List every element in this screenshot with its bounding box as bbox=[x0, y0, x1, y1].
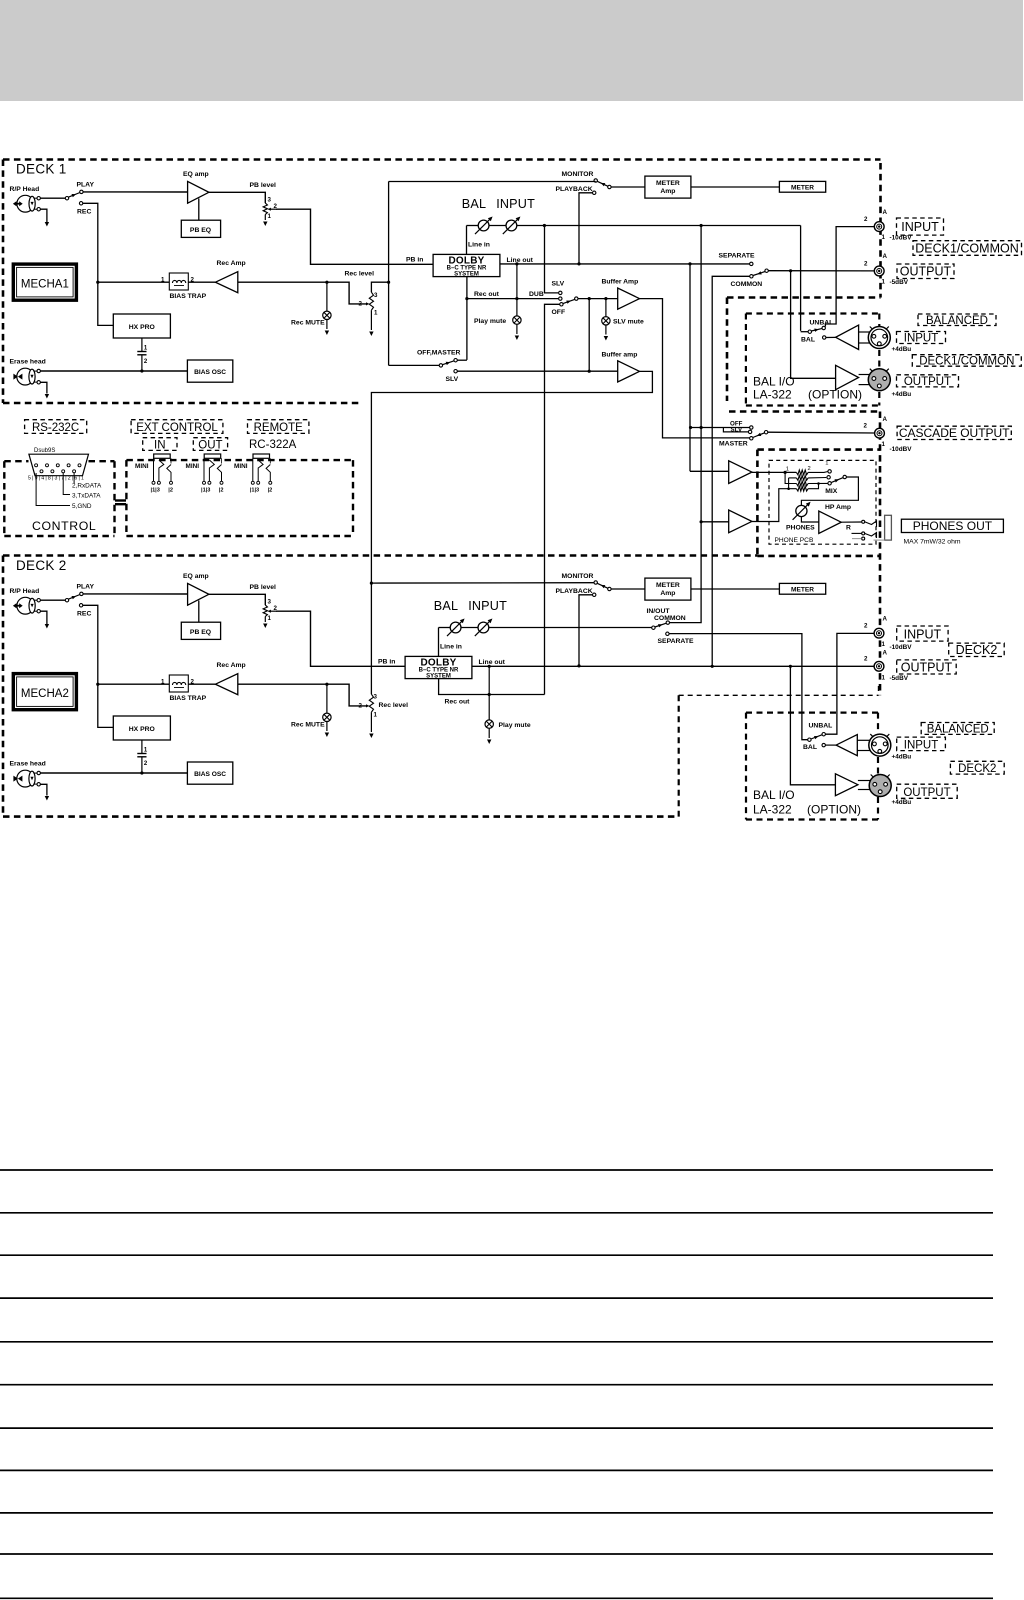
svg-text:Rec out: Rec out bbox=[474, 291, 500, 298]
op-amp EQ amp deck2 bbox=[188, 583, 209, 605]
inductor BIAS TRAP deck2 bbox=[169, 675, 188, 692]
svg-text:(OPTION): (OPTION) bbox=[808, 388, 862, 402]
wire HP amp to phone jack tip bbox=[841, 521, 861, 523]
svg-text:|2: |2 bbox=[268, 488, 273, 494]
svg-text:Rec out: Rec out bbox=[445, 698, 471, 705]
svg-text:A: A bbox=[883, 616, 888, 623]
header gray band bbox=[0, 0, 1023, 101]
svg-text:CASCADE OUTPUT: CASCADE OUTPUT bbox=[899, 426, 1010, 440]
svg-text:Line in: Line in bbox=[468, 242, 490, 249]
svg-text:PHONE PCB: PHONE PCB bbox=[775, 537, 814, 544]
block MECHA2 bbox=[13, 674, 76, 710]
erase head terminals deck2 bbox=[37, 771, 40, 774]
dashed box PHONE PCB inner bbox=[769, 460, 876, 544]
connector D-sub 9 pin bbox=[29, 454, 89, 476]
svg-text:1: 1 bbox=[825, 461, 828, 467]
dashed label box EXT CONTROL bbox=[131, 420, 223, 434]
wire erase head to BIAS OSC deck2 bbox=[40, 772, 187, 774]
svg-text:METER: METER bbox=[791, 586, 814, 593]
svg-text:PLAY: PLAY bbox=[77, 182, 95, 189]
svg-text:METER: METER bbox=[656, 582, 680, 589]
connector mini jack body bbox=[253, 454, 270, 458]
svg-text:Line in: Line in bbox=[440, 644, 462, 651]
svg-text:MIX: MIX bbox=[825, 488, 838, 495]
svg-text:LA-322: LA-322 bbox=[753, 388, 792, 402]
wire line in vertical deck1 bbox=[466, 226, 468, 255]
wire buffer amp 2 output cascade to deck2 deck1 bbox=[371, 371, 652, 694]
svg-text:3: 3 bbox=[374, 694, 378, 701]
dashed label box RS-232C bbox=[25, 420, 87, 434]
connector XLR balanced output deck1 bbox=[868, 369, 890, 391]
block BIAS OSC deck1 bbox=[187, 360, 232, 382]
ruled line 8 bbox=[0, 1469, 993, 1471]
svg-text:2: 2 bbox=[359, 703, 363, 710]
wire DOLBY rec out vertical deck1 bbox=[466, 277, 468, 360]
lamp SLV mute deck1 bbox=[605, 299, 607, 317]
mini jack contact pins bbox=[251, 458, 271, 484]
junction bus 690 at OFF wire bbox=[689, 426, 692, 429]
svg-text:PLAY: PLAY bbox=[77, 584, 95, 591]
wire common contact to bus up deck2 bbox=[670, 522, 702, 623]
dashed label box INPUT balanced deck1 bbox=[897, 332, 946, 344]
amplifier balanced input deck1 bbox=[836, 325, 859, 349]
svg-text:+4dBu: +4dBu bbox=[892, 391, 912, 398]
wire BAL INPUT to in/out switch deck2 bbox=[489, 627, 652, 629]
svg-text:|1|3: |1|3 bbox=[151, 488, 160, 494]
svg-text:INPUT: INPUT bbox=[904, 333, 939, 345]
junction capacitor to erase wire deck1 bbox=[140, 369, 143, 372]
wire phones amp2 output to mix bbox=[752, 489, 797, 522]
DECK 2 notch dashed top bbox=[679, 694, 879, 696]
switch MIX phones bbox=[828, 470, 831, 473]
wire R contact stub bbox=[852, 532, 862, 534]
wire D-sub pin3 TxDATA bbox=[63, 473, 70, 495]
dashed box LA-322 option deck2 bbox=[746, 711, 878, 713]
wire REC line to HX PRO deck1 bbox=[98, 282, 114, 325]
amplifier Rec Amp deck2 bbox=[215, 674, 237, 695]
R/P head deck2 bbox=[13, 597, 37, 614]
block METER Amp deck2 bbox=[645, 578, 691, 600]
svg-text:OUTPUT: OUTPUT bbox=[900, 265, 952, 279]
svg-text:MONITOR: MONITOR bbox=[562, 171, 594, 178]
switch UNBAL/BAL deck1 bbox=[822, 326, 825, 329]
erase head terminals deck1 bbox=[37, 369, 40, 372]
mini jack contact pins bbox=[203, 458, 224, 484]
wire BIAS TRAP to Rec Amp deck1 bbox=[188, 281, 215, 283]
potentiometer PB level deck1 bbox=[263, 203, 267, 214]
wire buffer amp 1 output to MASTER deck1 bbox=[640, 299, 750, 438]
svg-text:Buffer Amp: Buffer Amp bbox=[602, 279, 639, 286]
jack RCA INPUT deck2 bbox=[874, 628, 884, 638]
switch MONITOR/PLAYBACK deck1 bbox=[594, 179, 597, 182]
wire mix left feed rows 2-4 bbox=[788, 478, 790, 489]
dashed label box IN bbox=[143, 438, 177, 451]
wire R/P head to PLAY/REC switch deck1 bbox=[40, 197, 65, 199]
resistor mix row3 bbox=[796, 481, 808, 486]
svg-text:3: 3 bbox=[374, 292, 378, 299]
svg-text:Erase head: Erase head bbox=[10, 761, 46, 768]
svg-text:3: 3 bbox=[268, 197, 272, 204]
wire monitor feed bus deck1 bbox=[389, 181, 596, 183]
resistor mix row1 bbox=[796, 470, 808, 475]
wire PB level wiper to DOLBY PB in deck2 bbox=[276, 611, 405, 666]
svg-text:1: 1 bbox=[144, 346, 148, 352]
svg-text:REC: REC bbox=[77, 209, 91, 216]
wire BIAS TRAP to Rec Amp deck2 bbox=[188, 683, 215, 685]
svg-text:OFF: OFF bbox=[552, 309, 566, 316]
dashed label box DECK2 upper bbox=[949, 643, 1005, 656]
dashed label box INPUT deck1 bbox=[897, 218, 944, 235]
svg-text:Dsub9S: Dsub9S bbox=[34, 448, 55, 454]
wire R/P head lower to ground arrow deck1 bbox=[40, 209, 47, 222]
svg-text:PLAYBACK: PLAYBACK bbox=[556, 588, 593, 595]
junction rec out deck1 bbox=[465, 297, 468, 300]
wire mix right ends to contacts bbox=[808, 471, 828, 474]
wire BAL contact to input amp deck1 bbox=[826, 336, 836, 338]
svg-text:MINI: MINI bbox=[135, 463, 149, 470]
svg-text:REC: REC bbox=[77, 611, 91, 618]
junction bus 701 at OFF wire bbox=[700, 426, 703, 429]
wire phones amp1 to mix resistors bbox=[752, 471, 797, 473]
attenuator BAL pot R deck1 bbox=[503, 217, 521, 235]
junction playback on line out deck2 bbox=[577, 664, 580, 667]
wire monitor pole to METER Amp deck2 bbox=[611, 588, 645, 590]
dashed bridge between control boxes bbox=[115, 499, 126, 501]
svg-text:Line out: Line out bbox=[507, 257, 534, 264]
wire output amp to XLR deck2 bbox=[858, 780, 872, 782]
amplifier Rec Amp deck1 bbox=[215, 272, 237, 293]
svg-text:A: A bbox=[883, 416, 888, 423]
wire line in vertical deck2 bbox=[438, 628, 440, 657]
junction monitor deck2 tap bbox=[370, 582, 373, 585]
svg-text:Rec Amp: Rec Amp bbox=[217, 260, 246, 267]
wire R/P head lower to ground arrow deck2 bbox=[40, 611, 47, 624]
svg-text:UNBAL: UNBAL bbox=[810, 319, 834, 326]
block BIAS OSC deck2 bbox=[187, 762, 232, 784]
junction rec wire on bus deck1 bbox=[387, 281, 390, 284]
wire rec path head-side deck2 bbox=[98, 683, 170, 685]
svg-text:SLV mute: SLV mute bbox=[613, 319, 644, 326]
dashed label box OUTPUT balanced deck2 bbox=[897, 784, 958, 798]
svg-text:IN/OUT: IN/OUT bbox=[647, 608, 671, 615]
svg-text:|1|3: |1|3 bbox=[201, 488, 210, 494]
svg-text:BIAS OSC: BIAS OSC bbox=[194, 369, 226, 376]
svg-text:SYSTEM: SYSTEM bbox=[454, 271, 479, 277]
DECK 2 notch dashed right bbox=[678, 695, 680, 816]
switch IN/OUT COMMON - SEPARATE deck2 bbox=[652, 626, 655, 629]
svg-text:Rec level: Rec level bbox=[345, 271, 375, 278]
DECK 1 notch dashed top bbox=[727, 296, 881, 299]
ruled line 3 bbox=[0, 1254, 993, 1256]
svg-text:SLV: SLV bbox=[446, 376, 459, 383]
wire BAL INPUT horizontal deck1 bbox=[467, 225, 479, 227]
svg-text:-10dBV: -10dBV bbox=[890, 446, 913, 453]
PB level lower terminal arrow deck1 bbox=[264, 215, 266, 221]
junction bus x701 on BAL input wire deck1 bbox=[700, 224, 703, 227]
svg-text:PB EQ: PB EQ bbox=[190, 629, 211, 636]
jack RCA INPUT deck1 bbox=[874, 222, 884, 232]
block HX PRO deck2 bbox=[113, 716, 170, 740]
wire balanced output feed deck2 bbox=[790, 666, 835, 785]
svg-text:SEPARATE: SEPARATE bbox=[658, 638, 694, 645]
svg-text:|2: |2 bbox=[219, 488, 224, 494]
ruled line 7 bbox=[0, 1427, 993, 1429]
wire Rec Amp input from rec level deck2 bbox=[238, 684, 366, 706]
svg-text:5,GND: 5,GND bbox=[72, 503, 92, 510]
connector XLR balanced input deck2 bbox=[869, 734, 891, 756]
svg-text:|1|3: |1|3 bbox=[250, 488, 259, 494]
svg-text:OUT: OUT bbox=[198, 439, 222, 451]
svg-text:Rec MUTE: Rec MUTE bbox=[291, 722, 325, 729]
wire PLAY contact to EQ amp deck1 bbox=[83, 191, 188, 193]
svg-text:DECK2: DECK2 bbox=[956, 643, 998, 657]
bus line out to cascade/phones bbox=[689, 264, 691, 471]
R/P head deck1 bbox=[13, 195, 37, 212]
attenuator BAL pot L deck2 bbox=[447, 619, 465, 637]
svg-text:DECK 1: DECK 1 bbox=[16, 162, 67, 177]
svg-text:Play mute: Play mute bbox=[499, 722, 531, 729]
svg-text:BIAS TRAP: BIAS TRAP bbox=[170, 293, 207, 300]
wire play mute tap deck1 bbox=[516, 264, 518, 316]
svg-text:OUTPUT: OUTPUT bbox=[901, 661, 953, 675]
svg-text:METER: METER bbox=[791, 184, 814, 191]
svg-text:PHONES: PHONES bbox=[786, 525, 815, 532]
svg-text:1: 1 bbox=[882, 234, 886, 241]
svg-text:IN: IN bbox=[154, 439, 166, 451]
switch cascade OFF/SLV/MASTER bbox=[691, 427, 750, 429]
wire METER Amp to METER deck2 bbox=[691, 588, 780, 590]
svg-text:OUTPUT: OUTPUT bbox=[903, 787, 950, 799]
lamp Play mute deck1 bbox=[513, 316, 521, 324]
svg-text:REMOTE: REMOTE bbox=[254, 422, 304, 434]
DECK 2 dashed border left bbox=[2, 556, 5, 817]
svg-text:Rec Amp: Rec Amp bbox=[217, 662, 246, 669]
svg-text:CONTROL: CONTROL bbox=[32, 519, 96, 533]
ruled line 10 bbox=[0, 1553, 993, 1555]
ruled line 9 bbox=[0, 1512, 993, 1514]
amplifier Buffer Amp deck1 bbox=[618, 288, 640, 309]
svg-text:BIAS TRAP: BIAS TRAP bbox=[170, 695, 207, 702]
svg-text:PB in: PB in bbox=[406, 256, 423, 263]
dashed border below LA-322 deck1 bbox=[729, 410, 880, 413]
dashed label box DECK2 lower bbox=[950, 761, 1004, 774]
R/P head terminals deck1 bbox=[37, 197, 40, 200]
dashed label box OUTPUT deck2 bbox=[897, 660, 957, 674]
dashed label box INPUT balanced deck2 bbox=[897, 737, 946, 751]
svg-text:A: A bbox=[883, 209, 888, 216]
svg-text:HX PRO: HX PRO bbox=[129, 324, 155, 331]
svg-text:1: 1 bbox=[268, 615, 272, 622]
lamp Rec MUTE deck2 bbox=[326, 684, 328, 713]
wire rec path head-side deck1 bbox=[98, 281, 170, 283]
svg-text:(OPTION): (OPTION) bbox=[807, 803, 861, 817]
connector mini jack body bbox=[154, 454, 171, 458]
resistor mix row4 bbox=[796, 486, 808, 491]
svg-text:+4dBu: +4dBu bbox=[892, 754, 912, 761]
op-amp EQ amp deck1 bbox=[188, 181, 209, 203]
wire INPUT jack deck2 bbox=[825, 633, 874, 734]
svg-text:INPUT: INPUT bbox=[468, 599, 507, 613]
svg-text:PB level: PB level bbox=[250, 584, 277, 591]
erase head deck2 bbox=[13, 770, 37, 787]
DECK 1 dashed border left bbox=[2, 160, 5, 404]
svg-text:MECHA2: MECHA2 bbox=[21, 688, 69, 700]
svg-text:INPUT: INPUT bbox=[496, 197, 535, 211]
wire COMMON contact to bus down deck1 bbox=[712, 276, 750, 666]
junction x589 on pole wire deck1 bbox=[588, 297, 591, 300]
wire monitor feed deck2 bbox=[371, 582, 594, 584]
svg-text:1: 1 bbox=[144, 748, 148, 754]
connector XLR balanced input deck1 bbox=[868, 327, 890, 349]
svg-text:PLAYBACK: PLAYBACK bbox=[556, 186, 593, 193]
label PHONE PCB bbox=[771, 535, 815, 544]
svg-text:Amp: Amp bbox=[660, 590, 675, 597]
ruled line 6 bbox=[0, 1384, 993, 1386]
svg-text:DUB: DUB bbox=[529, 291, 544, 298]
wire R/P head to PLAY/REC switch deck2 bbox=[40, 599, 65, 601]
svg-text:METER: METER bbox=[656, 180, 680, 187]
amplifier balanced output deck2 bbox=[835, 774, 858, 796]
wire DUB pole to Buffer Amp deck1 bbox=[578, 298, 618, 300]
wire playback contact down deck2 bbox=[579, 595, 593, 666]
svg-text:INPUT: INPUT bbox=[901, 220, 939, 234]
svg-text:SLV: SLV bbox=[731, 427, 743, 434]
wire rec pot3 to bus deck1 bbox=[371, 282, 388, 292]
connector mini jack body bbox=[204, 454, 221, 458]
dashed label box OUTPUT deck1 bbox=[897, 264, 954, 279]
dashed box remote jacks bbox=[126, 459, 353, 461]
svg-text:2: 2 bbox=[864, 216, 868, 223]
wire DOLBY line out deck1 bbox=[500, 263, 750, 265]
wire rec out to DUB contact deck1 bbox=[467, 298, 558, 300]
dashed label box REMOTE bbox=[248, 420, 309, 434]
amplifier Buffer amp 2 deck1 bbox=[618, 361, 640, 382]
block MECHA1 bbox=[13, 264, 76, 300]
DECK 1 dashed border top bbox=[3, 158, 881, 161]
inductor BIAS TRAP deck1 bbox=[169, 273, 188, 290]
PB level wiper arrow deck2 bbox=[270, 610, 276, 612]
block DOLBY NR deck2 bbox=[405, 656, 472, 678]
junction bus x544 on BAL input wire deck1 bbox=[543, 224, 546, 227]
svg-text:MECHA1: MECHA1 bbox=[21, 279, 69, 291]
svg-text:LA-322: LA-322 bbox=[753, 803, 792, 817]
svg-text:BAL: BAL bbox=[434, 599, 458, 613]
wire cascade pole to jack bbox=[768, 431, 875, 434]
wire x589 down to slv wire deck1 bbox=[588, 299, 590, 372]
dashed label box DECK1/COMMON upper bbox=[913, 241, 1022, 256]
svg-text:Buffer amp: Buffer amp bbox=[602, 352, 638, 359]
svg-text:1: 1 bbox=[374, 712, 378, 719]
potentiometer Rec level deck1 bbox=[369, 292, 373, 310]
svg-text:2: 2 bbox=[864, 261, 868, 268]
wire BAL INPUT horizontal deck2 bbox=[439, 627, 451, 629]
dashed box LA-322 option deck1 bbox=[746, 312, 879, 314]
wire input amp to XLR deck1 bbox=[859, 331, 872, 333]
wire Rec Amp input from rec level deck1 bbox=[238, 282, 366, 304]
svg-text:RC-322A: RC-322A bbox=[249, 439, 297, 451]
svg-text:1: 1 bbox=[882, 279, 886, 286]
svg-text:BAL: BAL bbox=[803, 744, 817, 751]
wire play mute tap deck2 bbox=[488, 666, 490, 720]
wire balanced output feed deck1 bbox=[791, 271, 836, 379]
erase head deck1 bbox=[13, 368, 37, 385]
switch MONITOR/PLAYBACK deck2 bbox=[594, 581, 597, 584]
wire EQ amp to PB EQ deck2 bbox=[198, 601, 200, 623]
wire BAL contact to amp deck2 bbox=[825, 744, 836, 746]
svg-text:A: A bbox=[883, 253, 888, 260]
svg-text:Line out: Line out bbox=[479, 659, 506, 666]
wire REC line to HX PRO deck2 bbox=[98, 684, 114, 727]
wire SLV feed from bus deck1 bbox=[545, 226, 559, 293]
svg-text:A: A bbox=[883, 650, 888, 657]
wire BAL INPUT bus to UNBAL pole deck1 bbox=[517, 225, 801, 227]
wire PLAY contact to EQ amp deck2 bbox=[83, 593, 188, 595]
switch PLAY/REC deck1 bbox=[65, 197, 68, 200]
svg-text:BIAS OSC: BIAS OSC bbox=[194, 771, 226, 778]
wire REC contact down deck1 bbox=[83, 203, 98, 282]
wire D-sub pin5 GND bbox=[36, 473, 70, 506]
jack RCA CASCADE OUTPUT bbox=[875, 428, 885, 438]
wire INPUT jack to UNBAL deck1 bbox=[825, 227, 874, 327]
svg-text:Rec MUTE: Rec MUTE bbox=[291, 320, 325, 327]
svg-text:PHONES OUT: PHONES OUT bbox=[913, 519, 993, 533]
svg-text:R/P Head: R/P Head bbox=[10, 588, 40, 595]
svg-text:EQ amp: EQ amp bbox=[183, 171, 209, 178]
dashed label box OUT bbox=[193, 438, 227, 451]
junction SLV mute tap deck1 bbox=[604, 297, 607, 300]
svg-text:Rec level: Rec level bbox=[379, 702, 409, 709]
dashed label box BALANCED deck1 bbox=[918, 314, 996, 326]
svg-text:SEPARATE: SEPARATE bbox=[719, 253, 755, 260]
dashed label box INPUT deck2 bbox=[897, 626, 948, 641]
ruled line 11 bbox=[0, 1597, 993, 1599]
wire line out deck2 bbox=[472, 665, 874, 667]
wire playback contact down deck1 bbox=[579, 193, 593, 264]
wire UNBAL pole up deck1 bbox=[801, 331, 809, 333]
connector phone jack contacts bbox=[862, 520, 865, 523]
svg-text:DECK1/COMMON: DECK1/COMMON bbox=[915, 241, 1018, 255]
svg-text:INPUT: INPUT bbox=[904, 739, 939, 751]
svg-text:BALANCED: BALANCED bbox=[927, 724, 989, 736]
Rec level pot lower arrow deck2 bbox=[370, 712, 372, 732]
svg-text:SLV: SLV bbox=[552, 281, 565, 288]
junction rec mute tap deck1 bbox=[325, 281, 328, 284]
wire erase head to BIAS OSC deck1 bbox=[40, 370, 187, 372]
svg-text:Amp: Amp bbox=[660, 188, 675, 195]
svg-text:R/P Head: R/P Head bbox=[10, 186, 40, 193]
switch DUB/OFF/SLV deck1 bbox=[559, 291, 562, 294]
wire monitor pole to METER Amp deck1 bbox=[611, 186, 645, 188]
junction line out bus x690 deck1 bbox=[688, 262, 691, 265]
block METER deck1 bbox=[779, 181, 825, 192]
svg-text:1: 1 bbox=[374, 310, 378, 317]
svg-text:1: 1 bbox=[786, 466, 789, 472]
common area dashed right edge bbox=[879, 412, 882, 696]
svg-text:-10dBV: -10dBV bbox=[890, 644, 913, 651]
svg-text:|2: |2 bbox=[168, 488, 173, 494]
wire master pole to rec out vertical deck1 bbox=[457, 359, 467, 361]
dashed label box BALANCED deck2 bbox=[921, 723, 994, 735]
svg-text:OUTPUT: OUTPUT bbox=[904, 376, 951, 388]
wire PB level wiper to DOLBY PB in deck1 bbox=[276, 209, 433, 264]
block METER deck2 bbox=[779, 583, 825, 594]
svg-text:MINI: MINI bbox=[234, 463, 248, 470]
ruled line 2 bbox=[0, 1212, 993, 1214]
jack RCA OUTPUT deck1 bbox=[874, 266, 884, 276]
junction balanced output tap deck1 bbox=[789, 269, 792, 272]
svg-text:R: R bbox=[846, 525, 851, 532]
Rec level pot lower arrow deck1 bbox=[370, 310, 372, 330]
